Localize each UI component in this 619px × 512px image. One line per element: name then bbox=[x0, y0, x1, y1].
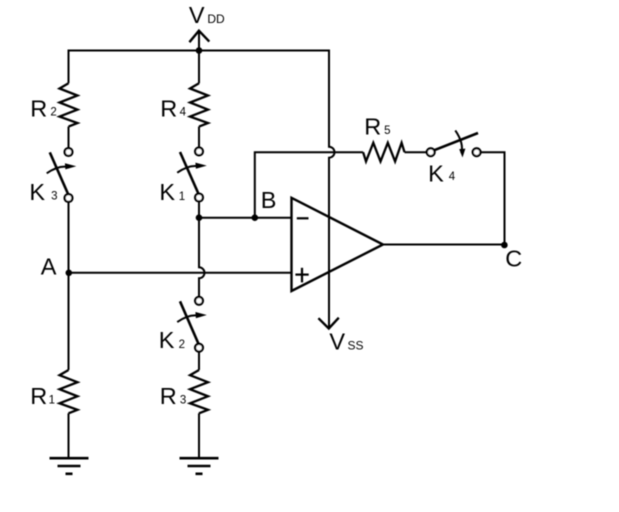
svg-text:DD: DD bbox=[207, 12, 225, 26]
svg-text:R: R bbox=[30, 96, 47, 122]
svg-text:R: R bbox=[30, 383, 47, 409]
svg-text:K: K bbox=[428, 161, 444, 187]
svg-text:1: 1 bbox=[179, 191, 185, 203]
svg-text:C: C bbox=[505, 245, 522, 271]
svg-text:4: 4 bbox=[180, 107, 187, 119]
svg-text:2: 2 bbox=[50, 107, 56, 119]
svg-text:3: 3 bbox=[180, 394, 186, 406]
svg-text:V: V bbox=[189, 2, 205, 28]
svg-text:R: R bbox=[160, 383, 177, 409]
svg-text:K: K bbox=[29, 179, 45, 205]
svg-text:K: K bbox=[159, 327, 175, 353]
svg-text:4: 4 bbox=[449, 171, 456, 183]
svg-text:B: B bbox=[261, 187, 277, 213]
svg-text:V: V bbox=[329, 328, 345, 354]
svg-text:2: 2 bbox=[179, 339, 185, 351]
svg-text:R: R bbox=[364, 114, 381, 140]
svg-text:3: 3 bbox=[51, 190, 57, 202]
svg-text:SS: SS bbox=[348, 339, 364, 353]
svg-text:5: 5 bbox=[384, 125, 390, 137]
svg-text:A: A bbox=[41, 253, 57, 279]
svg-text:R: R bbox=[160, 96, 177, 122]
svg-text:K: K bbox=[159, 179, 175, 205]
svg-text:1: 1 bbox=[49, 394, 55, 406]
